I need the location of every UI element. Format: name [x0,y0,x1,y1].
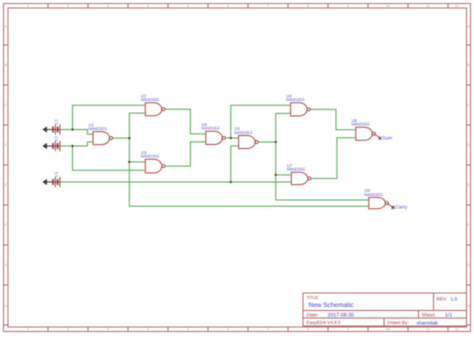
svg-text:10: 10 [386,328,390,332]
svg-text:Sheet:: Sheet: [422,313,436,319]
svg-text:NAND2EE: NAND2EE [287,167,306,172]
svg-text:8: 8 [307,328,309,332]
svg-text:8: 8 [307,4,309,8]
svg-text:7: 7 [267,4,269,8]
svg-text:6: 6 [227,4,229,8]
svg-text:F: F [5,223,7,227]
svg-text:EasyEDA V4.8.5: EasyEDA V4.8.5 [307,320,341,325]
svg-text:5V: 5V [55,174,59,178]
svg-text:NAND2EE: NAND2EE [141,154,160,159]
svg-text:10: 10 [386,4,390,8]
svg-text:5V: 5V [55,138,59,142]
svg-text:NAND2EE: NAND2EE [234,130,253,135]
svg-text:NAND2EE: NAND2EE [141,97,160,102]
svg-text:NAND2EE: NAND2EE [351,122,370,127]
svg-text:12: 12 [455,328,459,332]
svg-text:11: 11 [426,4,430,8]
svg-text:REV: REV [437,297,448,303]
svg-text:3: 3 [107,4,109,8]
svg-text:2: 2 [67,4,69,8]
svg-text:4: 4 [147,4,149,8]
svg-text:4: 4 [147,328,149,332]
svg-text:9: 9 [347,328,349,332]
svg-text:5V: 5V [55,122,59,126]
svg-text:3: 3 [107,328,109,332]
svg-text:Carry: Carry [395,205,408,211]
svg-text:9: 9 [347,4,349,8]
svg-text:2: 2 [67,328,69,332]
svg-text:NAND2EE: NAND2EE [364,192,383,197]
svg-text:Date:: Date: [307,313,319,319]
svg-text:Drawn By:: Drawn By: [388,320,409,325]
svg-text:TITLE:: TITLE: [307,295,320,300]
svg-text:NAND2EE: NAND2EE [88,126,107,131]
svg-text:1: 1 [27,328,29,332]
svg-text:B: B [5,63,7,67]
svg-text:E: E [5,183,7,187]
svg-text:6: 6 [227,328,229,332]
svg-text:1.0: 1.0 [451,297,458,303]
svg-text:Sum: Sum [382,135,392,141]
svg-text:NAND2EE: NAND2EE [286,97,305,102]
svg-text:11: 11 [426,328,430,332]
svg-text:sharmilak: sharmilak [417,320,439,326]
svg-text:2017-08-30: 2017-08-30 [328,313,355,319]
svg-text:F: F [468,223,470,227]
svg-text:5: 5 [187,4,189,8]
svg-text:1/1: 1/1 [445,313,452,319]
svg-text:12: 12 [455,4,459,8]
svg-text:5: 5 [187,328,189,332]
svg-text:E: E [467,183,469,187]
svg-text:NAND2EE: NAND2EE [201,126,220,131]
svg-text:B: B [467,63,469,67]
svg-text:7: 7 [267,328,269,332]
svg-text:1: 1 [27,4,29,8]
svg-text:New Schematic: New Schematic [309,302,355,309]
